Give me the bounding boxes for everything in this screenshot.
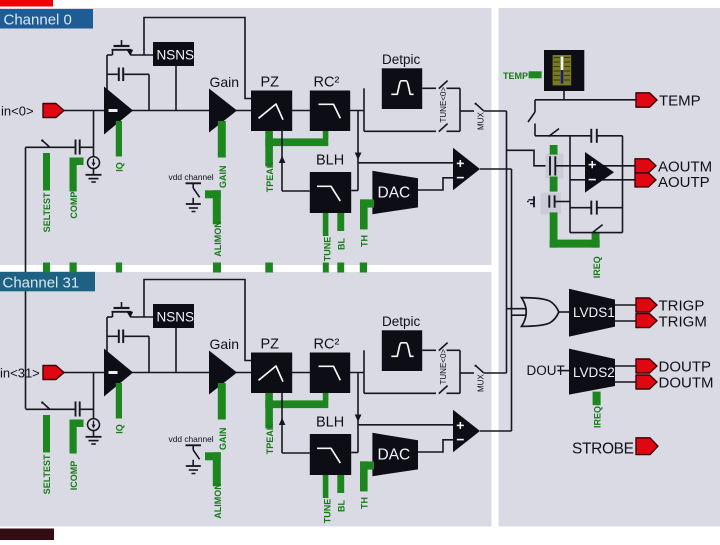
svg-text:IQ: IQ bbox=[115, 162, 125, 172]
svg-text:BLH: BLH bbox=[316, 153, 344, 169]
svg-text:GAIN: GAIN bbox=[218, 166, 228, 189]
svg-text:LVDS2: LVDS2 bbox=[573, 365, 615, 380]
svg-text:ICOMP: ICOMP bbox=[69, 461, 79, 491]
svg-text:TRIGP: TRIGP bbox=[659, 298, 705, 315]
svg-text:DOUTM: DOUTM bbox=[659, 375, 714, 392]
svg-text:PZ: PZ bbox=[261, 337, 280, 353]
block NSNS bbox=[153, 42, 194, 66]
slide title red bar bbox=[0, 0, 53, 7]
svg-text:Channel 31: Channel 31 bbox=[3, 274, 80, 291]
bias stub TUNE bbox=[323, 213, 329, 236]
OR gate trigger bbox=[522, 298, 559, 327]
svg-text:TEMP: TEMP bbox=[659, 93, 701, 110]
bias stub TUNE bbox=[323, 475, 329, 498]
wire: main signal line bbox=[64, 372, 364, 374]
bias stub TPEAK bridge bbox=[265, 393, 273, 428]
connector pad TRIGM bbox=[636, 314, 657, 328]
wire: comparator output bbox=[480, 430, 512, 432]
svg-text:PZ: PZ bbox=[261, 75, 280, 91]
svg-text:TEMP: TEMP bbox=[503, 71, 528, 81]
svg-text:TPEAK: TPEAK bbox=[265, 161, 275, 192]
bias stub SELTEST bbox=[43, 415, 50, 453]
DAC block bbox=[372, 171, 418, 214]
capacitor: test injection cap bbox=[75, 140, 77, 155]
svg-text:TPEAK: TPEAK bbox=[265, 423, 275, 454]
panel: channel 31 block background bbox=[0, 272, 492, 527]
svg-text:TRIGM: TRIGM bbox=[659, 314, 707, 331]
ground below vdd switch bbox=[192, 198, 194, 204]
svg-text:IREQ: IREQ bbox=[592, 256, 602, 278]
svg-text:ALIMON: ALIMON bbox=[213, 221, 223, 257]
connector pad AOUTM bbox=[635, 159, 656, 173]
wire: cap to output node bbox=[148, 74, 150, 110]
wire: monitor bus to output buffer bbox=[507, 150, 550, 166]
bias stub BL bbox=[337, 475, 344, 493]
svg-text:Detpic: Detpic bbox=[382, 314, 421, 329]
svg-text:AOUTM: AOUTM bbox=[658, 158, 712, 175]
LVDS2 driver bbox=[569, 349, 615, 395]
switch TUNE<0> bbox=[422, 349, 436, 351]
capacitor: test injection cap bbox=[75, 402, 77, 417]
wire: temp sensor output bbox=[563, 91, 565, 100]
svg-text:in<31>: in<31> bbox=[0, 366, 40, 381]
bias stub GAIN bbox=[218, 121, 226, 158]
svg-text:NSNS: NSNS bbox=[157, 48, 195, 63]
wire: DAC output to comparator bbox=[418, 178, 453, 190]
wire: preamp feedback input riser bbox=[106, 55, 108, 111]
svg-text:TUNE<0>: TUNE<0> bbox=[439, 349, 448, 385]
switch MUX bbox=[460, 372, 474, 374]
svg-text:TUNE: TUNE bbox=[323, 237, 333, 262]
LVDS1 driver bbox=[569, 289, 615, 337]
svg-text:IREQ: IREQ bbox=[593, 406, 603, 428]
svg-text:MUX: MUX bbox=[477, 112, 486, 130]
bias stub GAIN bbox=[218, 383, 226, 420]
wire: detpic/bypass merge bbox=[459, 350, 461, 393]
wire: LVDS2 outputs bbox=[615, 365, 636, 367]
wire: DAC output to comparator bbox=[418, 440, 453, 452]
wire: shaper output to discriminator bbox=[357, 373, 359, 453]
wire: OR to LVDS1 bbox=[558, 311, 569, 313]
connector pad inCH bbox=[43, 104, 64, 118]
wire: buffer inverting input bbox=[570, 179, 585, 181]
connector pad TEMP bbox=[636, 93, 657, 107]
connector pad inCH bbox=[43, 366, 64, 380]
switch: feedback reset bbox=[570, 232, 623, 234]
wire: feedback loop verticals bbox=[569, 136, 571, 233]
wire: NSNS output stub bbox=[175, 328, 177, 373]
switch MUX bbox=[460, 110, 474, 112]
svg-text:DAC: DAC bbox=[378, 185, 411, 202]
bias stub ALIMON elbow bbox=[205, 190, 221, 198]
wire: feedback row segments bbox=[107, 316, 113, 318]
svg-text:GAIN: GAIN bbox=[218, 428, 228, 451]
reference termination symbol bbox=[533, 196, 535, 207]
switch: test pulse switch bbox=[26, 146, 76, 148]
op-amp preamp bbox=[104, 87, 133, 135]
connector pad AOUTP bbox=[635, 173, 656, 187]
reference cap highlight bbox=[541, 193, 562, 215]
wire: branch to test injection node bbox=[93, 111, 95, 158]
svg-text:TUNE: TUNE bbox=[323, 499, 333, 524]
svg-text:in<0>: in<0> bbox=[1, 104, 34, 119]
bias stub IREQ (LVDS2) bbox=[593, 392, 601, 406]
wire: buffer outputs bbox=[600, 165, 635, 167]
op-amp preamp bbox=[104, 349, 133, 397]
ground below vdd switch bbox=[192, 460, 194, 466]
wire: cap to output node bbox=[148, 336, 150, 372]
panel: channel 0 block background bbox=[0, 8, 492, 265]
bias stub TH bbox=[360, 461, 368, 491]
wire: comparator output bbox=[480, 168, 512, 170]
transistor reset switch bbox=[121, 302, 123, 308]
wire: analog monitor bus vertical bbox=[506, 111, 508, 373]
wire: trigger bus vertical bbox=[511, 169, 513, 431]
wire: preamp feedback input riser bbox=[106, 317, 108, 373]
svg-text:NSNS: NSNS bbox=[157, 310, 195, 325]
svg-text:vdd channel: vdd channel bbox=[169, 434, 214, 444]
current source bbox=[88, 419, 100, 431]
svg-text:ALIMON: ALIMON bbox=[213, 483, 223, 519]
bias stub BL bbox=[337, 213, 344, 231]
svg-text:DAC: DAC bbox=[378, 447, 411, 464]
wire: shaper output to discriminator bbox=[357, 111, 359, 191]
temperature sensor block bbox=[544, 50, 584, 91]
wire: fork to Detpic and bypass bbox=[363, 88, 365, 131]
input coupling cap highlight bbox=[546, 154, 564, 179]
svg-text:Channel 0: Channel 0 bbox=[4, 12, 72, 29]
switch: test pulse switch bbox=[26, 408, 76, 410]
bias wire IREQ elbow bbox=[550, 212, 558, 247]
wire: feedback top rail bbox=[144, 18, 252, 99]
label Channel 31 bbox=[0, 272, 95, 292]
switch TUNE<0> bbox=[422, 87, 436, 89]
bias stub COMP elbow bbox=[70, 158, 84, 166]
current source bbox=[88, 157, 100, 169]
wire: OR gate input stubs bbox=[507, 308, 528, 310]
svg-text:AOUTP: AOUTP bbox=[658, 174, 710, 191]
connector pad TRIGP bbox=[636, 298, 657, 312]
svg-text:MUX: MUX bbox=[477, 374, 486, 392]
switch: detpic bypass bbox=[364, 130, 436, 132]
svg-text:SELTEST: SELTEST bbox=[42, 192, 52, 232]
svg-text:vdd channel: vdd channel bbox=[169, 172, 214, 182]
bias stub ALIMON elbow bbox=[205, 452, 221, 460]
bias stub SELTEST bbox=[43, 153, 50, 191]
wire: feedback row segments bbox=[107, 54, 113, 56]
wire: buffer bottom feedback loop bbox=[570, 207, 591, 209]
svg-text:DOUTP: DOUTP bbox=[659, 359, 712, 376]
label Channel 0 bbox=[0, 9, 93, 29]
bias stub IQ bbox=[116, 383, 122, 419]
op-amp output buffer bbox=[585, 152, 614, 193]
capacitor: buffer input cap bbox=[549, 156, 551, 175]
wire: main signal line bbox=[64, 110, 364, 112]
bias stub TH bbox=[360, 199, 368, 229]
capacitor: reference cap bbox=[548, 195, 550, 207]
connector pad STROBE bbox=[636, 438, 658, 455]
svg-text:Gain: Gain bbox=[210, 336, 240, 352]
svg-text:TUNE<0>: TUNE<0> bbox=[439, 87, 448, 123]
capacitor: bottom feedback cap bbox=[590, 201, 592, 215]
bias bus squares crossing channel gap bbox=[43, 263, 50, 273]
svg-text:TH: TH bbox=[359, 235, 369, 247]
svg-text:Gain: Gain bbox=[210, 74, 240, 90]
switch: monitor select bbox=[534, 100, 536, 112]
svg-text:RC²: RC² bbox=[314, 337, 340, 353]
svg-text:BL: BL bbox=[336, 500, 346, 512]
capacitor: preamp feedback cap bbox=[118, 330, 120, 344]
wire: detpic/bypass merge bbox=[459, 88, 461, 131]
wire: fork to Detpic and bypass bbox=[363, 350, 365, 393]
svg-text:BL: BL bbox=[336, 238, 346, 250]
wire: BLH feedback to PZ bbox=[282, 452, 310, 454]
capacitor: top feedback cap bbox=[590, 129, 592, 143]
wire: shared test-pulse vertical line bbox=[25, 147, 27, 409]
svg-text:TH: TH bbox=[359, 497, 369, 509]
bias stub IQ bbox=[116, 121, 122, 157]
bias stub TPEAK bridge bbox=[265, 131, 273, 166]
capacitor: preamp feedback cap bbox=[118, 68, 120, 82]
wire: branch to test injection node bbox=[93, 373, 95, 420]
svg-text:RC²: RC² bbox=[314, 75, 340, 91]
panel: output stage block background bbox=[499, 8, 720, 527]
bias stub COMP elbow bbox=[70, 420, 84, 428]
svg-text:SELTEST: SELTEST bbox=[42, 454, 52, 494]
svg-text:STROBE: STROBE bbox=[572, 441, 634, 458]
comparator bbox=[453, 410, 480, 453]
bottom maroon bar bbox=[0, 529, 54, 541]
svg-text:IQ: IQ bbox=[115, 424, 125, 434]
ground below current source bbox=[93, 168, 95, 175]
svg-text:BLH: BLH bbox=[316, 415, 344, 431]
switch: detpic bypass bbox=[364, 392, 436, 394]
wire: feedback top rail bbox=[144, 280, 252, 361]
connector pad DOUTP bbox=[636, 359, 657, 373]
bias dashes IREQ feed bbox=[550, 145, 558, 155]
wire: LVDS1 outputs bbox=[615, 304, 636, 306]
connector pad DOUTM bbox=[636, 375, 657, 389]
ground below current source bbox=[93, 430, 95, 437]
wire: BLH feedback to PZ bbox=[282, 190, 310, 192]
svg-text:Detpic: Detpic bbox=[382, 52, 421, 67]
transistor reset switch bbox=[121, 40, 123, 46]
block NSNS bbox=[153, 304, 194, 328]
comparator bbox=[453, 148, 480, 191]
svg-text:LVDS1: LVDS1 bbox=[573, 305, 615, 320]
wire: buffer top feedback loop bbox=[535, 135, 591, 137]
wire: NSNS output stub bbox=[175, 66, 177, 111]
DAC block bbox=[372, 433, 418, 476]
svg-text:COMP: COMP bbox=[69, 192, 79, 219]
